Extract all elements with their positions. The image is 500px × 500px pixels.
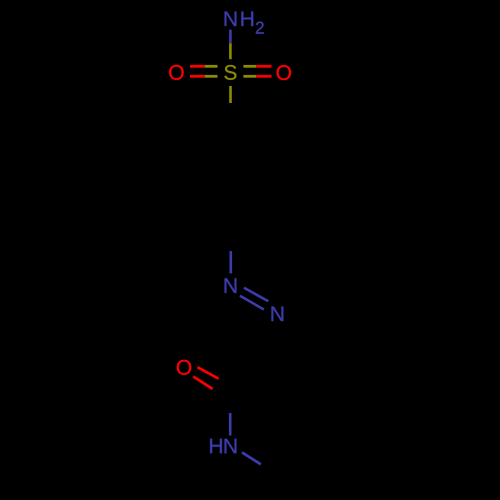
wire S=O right lower line sulfur half <box>243 75 256 78</box>
wire S=O left upper line sulfur half <box>205 65 218 68</box>
amide HN label: H <box>210 439 222 454</box>
sulfur S label <box>224 65 236 80</box>
wire N-S bond sulfur half <box>229 44 232 60</box>
oxygen O right label <box>277 65 291 80</box>
amine NH2 label: N <box>225 12 237 26</box>
wire S=O left lower line sulfur half <box>205 75 218 78</box>
carbonyl oxygen O label <box>177 360 191 375</box>
amine NH2 label: subscript 2 <box>256 22 264 34</box>
wire C-N amide bond nitrogen half <box>229 413 232 436</box>
azo nitrogen N2 label <box>272 307 284 322</box>
wire S=O right upper line oxygen half <box>256 65 271 68</box>
wire N-S bond nitrogen half <box>229 30 232 44</box>
wire S=O left upper line oxygen half <box>190 65 205 68</box>
wire N1=N2 double bond upper line <box>244 288 268 302</box>
wire C=O double bond upper line oxygen half <box>197 367 218 379</box>
wire N-CH3 bond nitrogen half <box>242 452 261 464</box>
wire N1=N2 double bond lower line <box>240 296 264 310</box>
wire S=O left lower line oxygen half <box>190 75 205 78</box>
wire C-N1 bond nitrogen half <box>230 251 233 273</box>
azo nitrogen N1 label <box>225 278 237 293</box>
wire C=O double bond lower line oxygen half <box>193 377 212 389</box>
oxygen O left label <box>169 65 183 80</box>
wire S=O right upper line sulfur half <box>243 65 256 68</box>
amine NH2 label: H <box>241 12 253 26</box>
amide HN label: N <box>225 439 237 454</box>
wire S=O right lower line oxygen half <box>256 75 271 78</box>
wire S-C bond sulfur half <box>229 86 232 103</box>
